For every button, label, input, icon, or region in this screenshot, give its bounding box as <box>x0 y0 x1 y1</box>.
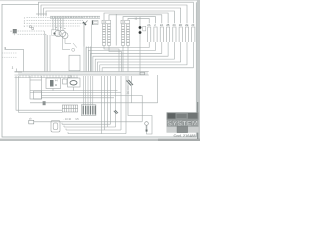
svg-text:2D: 2D <box>179 23 182 27</box>
svg-text:2E: 2E <box>185 23 188 27</box>
svg-text:SYSTEM: SYSTEM <box>167 121 198 128</box>
svg-text:2B: 2B <box>166 23 169 27</box>
svg-text:2A: 2A <box>160 23 163 27</box>
svg-text:2A: 2A <box>147 23 150 27</box>
svg-text:Cod. 216488: Cod. 216488 <box>174 134 196 138</box>
svg-text:2C: 2C <box>173 23 176 27</box>
svg-text:.. 10 10: .. 10 10 <box>63 118 72 121</box>
svg-text:2F: 2F <box>191 23 194 27</box>
svg-text:12V: 12V <box>68 76 73 79</box>
